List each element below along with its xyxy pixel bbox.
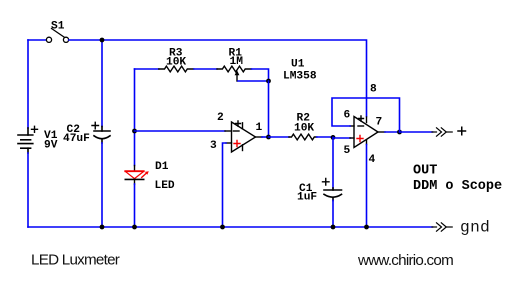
wire R2 to pin5 node — [317, 136, 333, 138]
wire C1 branch upper — [332, 137, 334, 188]
U1B red plus (pin5 input) — [357, 136, 363, 142]
wire bottom rail — [28, 226, 433, 228]
wire feedback rail left corner — [135, 68, 159, 70]
svg-text:8: 8 — [370, 84, 377, 96]
wire feedback box pin6 to pin7 — [332, 98, 400, 132]
node pin3 ground junction — [220, 225, 225, 230]
node U1A output junction — [266, 135, 271, 140]
op-amp U1A — [225, 121, 262, 152]
LED D1 — [125, 166, 149, 185]
wire U1A output to node — [262, 136, 269, 138]
svg-text:10K: 10K — [166, 57, 186, 69]
svg-text:D1: D1 — [155, 161, 169, 173]
svg-text:DDM o Scope: DDM o Scope — [413, 179, 502, 194]
wire node to pin 5 — [333, 137, 351, 139]
R1 wiper arrow — [235, 70, 240, 81]
node C2 ground junction — [100, 225, 105, 230]
wire feedback down to output node — [268, 81, 270, 137]
wire pin3 to ground — [223, 143, 227, 227]
resistor R3 — [159, 66, 194, 72]
capacitor C1 — [324, 188, 342, 201]
svg-text:gnd: gnd — [461, 219, 491, 236]
svg-text:10K: 10K — [294, 123, 314, 135]
node R2/C1/pin5 junction — [331, 135, 336, 140]
wire C1 to ground rail — [332, 201, 334, 228]
port + output arrow — [432, 128, 452, 136]
svg-text:1: 1 — [256, 122, 263, 134]
wire top rail right segment to pin 8 — [69, 40, 367, 117]
wire battery branch upper — [27, 40, 29, 128]
wire pin4 to ground — [366, 145, 368, 228]
svg-text:7: 7 — [376, 117, 383, 129]
svg-text:6: 6 — [344, 110, 351, 122]
svg-text:S1: S1 — [51, 21, 65, 33]
svg-text:5: 5 — [344, 145, 351, 157]
node C1 ground junction — [331, 225, 336, 230]
svg-text:4: 4 — [369, 154, 376, 166]
node LED ground junction — [132, 225, 137, 230]
svg-text:2: 2 — [217, 112, 224, 124]
wire R1 right to wiper junction — [252, 69, 269, 81]
wire LED to ground rail — [134, 184, 136, 227]
plus sign output — [458, 127, 466, 135]
svg-text:9V: 9V — [44, 140, 58, 152]
node top rail C2 junction — [100, 38, 105, 43]
svg-text:1uF: 1uF — [297, 192, 317, 204]
wire pin2 horizontal — [135, 130, 226, 132]
wire output node to R2 — [269, 136, 290, 138]
svg-text:LED: LED — [155, 180, 175, 192]
svg-text:3: 3 — [210, 140, 217, 152]
U1A red plus (pin3 input) — [234, 141, 240, 147]
svg-text:47uF: 47uF — [63, 133, 90, 145]
port gnd arrow — [432, 223, 452, 231]
resistor R2 — [289, 134, 317, 140]
battery plus sign — [32, 126, 38, 132]
wire C2 branch lower — [101, 143, 103, 227]
wire U1B output to node — [385, 131, 400, 133]
wire pin2 node vertical — [134, 69, 136, 166]
svg-text:U1: U1 — [291, 59, 305, 71]
op-amp U1B — [350, 116, 385, 148]
wire top rail left segment — [28, 39, 46, 41]
wire C2 branch upper — [101, 40, 103, 127]
node pin2 junction — [132, 129, 137, 134]
svg-text:1M: 1M — [230, 56, 244, 68]
C1 plus sign — [323, 179, 330, 186]
svg-text:LED Luxmeter: LED Luxmeter — [31, 252, 120, 269]
wire wiper to junction — [238, 80, 269, 82]
svg-text:www.chirio.com: www.chirio.com — [357, 252, 453, 269]
wire between R3 and R1 — [194, 68, 217, 70]
resistor R1 (trimmer) — [217, 66, 252, 72]
node U1B output junction — [397, 130, 402, 135]
C2 plus sign — [92, 122, 99, 129]
svg-text:LM358: LM358 — [283, 71, 317, 83]
node pin4 ground junction — [364, 225, 369, 230]
wire output to port — [400, 131, 433, 133]
battery V1 — [18, 128, 33, 153]
node R1 wiper junction — [266, 79, 271, 84]
capacitor C2 — [94, 127, 110, 144]
wire battery branch lower — [27, 153, 29, 227]
switch S1 — [46, 29, 68, 43]
svg-text:OUT: OUT — [413, 164, 437, 179]
